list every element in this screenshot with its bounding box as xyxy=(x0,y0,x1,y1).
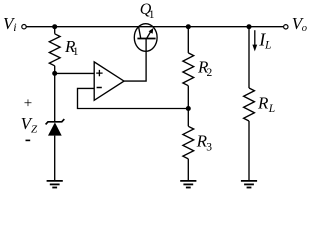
zener diode VZ anode triangle xyxy=(48,122,62,135)
wire R1 branch vertical stubs xyxy=(54,27,56,74)
svg-text:1: 1 xyxy=(149,9,155,21)
op-amp plus input sign xyxy=(96,70,102,76)
transistor Q1 emitter lead xyxy=(147,30,152,38)
svg-text:1: 1 xyxy=(73,46,79,58)
wire node A to op-amp + input xyxy=(55,72,94,74)
zener diode VZ cathode bar xyxy=(46,119,65,124)
label zener minus xyxy=(26,139,31,141)
transistor Q1 circle xyxy=(134,24,157,52)
transistor Q1 base bar xyxy=(137,38,155,40)
svg-text:i: i xyxy=(13,20,16,34)
svg-text:L: L xyxy=(268,103,275,115)
node junction R1 bottom / zener xyxy=(52,71,57,76)
op-amp U1 triangle xyxy=(94,62,124,100)
terminal Vo xyxy=(284,25,288,29)
ground RL branch xyxy=(241,181,257,188)
wire top rail Vi to Vo xyxy=(26,26,283,28)
transistor Q1 emitter arrowhead xyxy=(149,28,154,34)
ground R3 branch xyxy=(180,181,196,188)
wire op-amp - input feedback xyxy=(78,88,189,108)
svg-text:L: L xyxy=(264,40,271,52)
svg-text:R: R xyxy=(257,93,269,112)
resistor R3 xyxy=(183,126,194,159)
wire R2 branch stubs xyxy=(187,27,189,109)
resistor R1 xyxy=(49,34,60,66)
wire R3 branch stubs xyxy=(187,109,189,181)
node junction RL top xyxy=(247,24,252,29)
svg-text:o: o xyxy=(302,23,307,34)
svg-text:Z: Z xyxy=(31,124,38,136)
svg-text:3: 3 xyxy=(206,142,212,154)
resistor RL xyxy=(244,88,255,121)
node junction R1 top xyxy=(52,24,57,29)
transistor Q1 base lead xyxy=(145,39,147,52)
wire RL branch stubs xyxy=(248,27,250,180)
ground zener branch xyxy=(47,181,63,188)
transistor Q1 collector lead xyxy=(139,27,141,39)
svg-text:2: 2 xyxy=(207,67,213,79)
node junction R2-R3 feedback xyxy=(186,106,191,111)
resistor R2 xyxy=(183,53,194,86)
svg-text:+: + xyxy=(24,96,32,112)
current arrow IL xyxy=(254,30,256,45)
wire zener branch xyxy=(54,73,56,180)
op-amp minus input sign xyxy=(97,87,102,89)
node junction R2 top xyxy=(186,24,191,29)
wire op-amp output to Q1 base xyxy=(124,51,146,81)
terminal Vi xyxy=(22,25,26,29)
